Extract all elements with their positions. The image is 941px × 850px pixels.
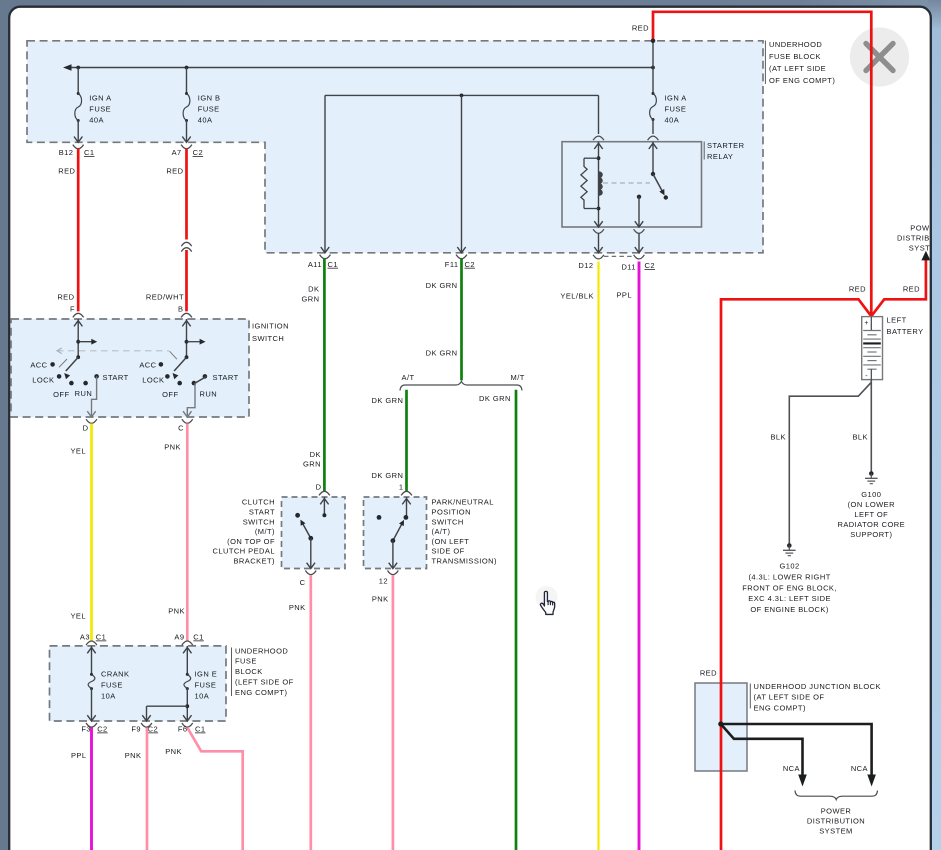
svg-text:PPL: PPL [616,291,632,300]
svg-text:EXC 4.3L: LEFT SIDE: EXC 4.3L: LEFT SIDE [748,594,831,603]
svg-text:FUSE: FUSE [101,681,123,690]
svg-text:RED/WHT: RED/WHT [146,293,184,302]
svg-text:(A/T): (A/T) [432,527,451,536]
svg-text:STARTER: STARTER [707,141,745,150]
svg-text:YEL: YEL [70,611,86,620]
svg-text:RED: RED [849,284,866,293]
svg-text:NCA: NCA [851,764,868,773]
svg-text:C1: C1 [193,633,204,642]
svg-text:(ON LEFT: (ON LEFT [432,537,470,546]
svg-text:POSITION: POSITION [432,508,471,517]
svg-text:12: 12 [379,576,388,585]
svg-text:RED: RED [632,23,649,32]
svg-text:GRN: GRN [303,460,321,469]
svg-text:(AT LEFT SIDE: (AT LEFT SIDE [769,64,826,73]
svg-text:SWITCH: SWITCH [252,334,284,343]
svg-text:SUPPORT): SUPPORT) [850,530,892,539]
svg-text:DK: DK [308,285,319,294]
svg-text:PNK: PNK [168,606,185,615]
svg-text:C1: C1 [84,148,95,157]
svg-text:C1: C1 [195,725,206,734]
svg-text:OF ENG COMPT): OF ENG COMPT) [769,76,835,85]
svg-text:ACC: ACC [30,361,47,370]
svg-text:CRANK: CRANK [101,669,130,678]
svg-text:G100: G100 [861,490,881,499]
svg-text:LEFT: LEFT [887,316,907,325]
svg-text:A9: A9 [174,633,184,642]
svg-text:IGN E: IGN E [195,669,218,678]
svg-text:10A: 10A [195,692,210,701]
svg-text:F6: F6 [178,725,188,734]
svg-text:C1: C1 [96,633,107,642]
svg-text:SYSTEM: SYSTEM [819,826,853,835]
svg-text:RED: RED [903,284,920,293]
svg-text:PARK/NEUTRAL: PARK/NEUTRAL [432,498,494,507]
svg-text:DK GRN: DK GRN [426,348,458,357]
svg-text:LOCK: LOCK [32,375,54,384]
svg-text:(ON TOP OF: (ON TOP OF [227,537,275,546]
svg-text:B12: B12 [59,148,74,157]
svg-text:RUN: RUN [75,389,93,398]
svg-text:1: 1 [399,482,404,491]
svg-text:10A: 10A [101,692,116,701]
svg-text:DK GRN: DK GRN [479,394,511,403]
svg-text:RELAY: RELAY [707,152,733,161]
svg-text:RUN: RUN [200,389,218,398]
svg-text:40A: 40A [665,116,680,125]
svg-text:BLOCK: BLOCK [235,667,263,676]
svg-text:C: C [300,578,306,587]
svg-text:UNDERHOOD: UNDERHOOD [235,646,288,655]
svg-text:(ON LOWER: (ON LOWER [848,500,896,509]
svg-text:CLUTCH: CLUTCH [242,498,275,507]
svg-text:G102: G102 [780,562,800,571]
svg-text:IGN A: IGN A [89,93,111,102]
svg-text:DK: DK [310,450,321,459]
svg-text:F9: F9 [131,725,141,734]
svg-text:LEFT OF: LEFT OF [854,510,888,519]
svg-text:TRANSMISSION): TRANSMISSION) [432,557,497,566]
svg-text:UNDERHOOD: UNDERHOOD [769,40,822,49]
svg-text:FUSE: FUSE [195,681,217,690]
svg-text:B: B [178,304,183,313]
svg-text:C2: C2 [193,148,204,157]
svg-text:LOCK: LOCK [142,375,164,384]
svg-text:C1: C1 [328,260,339,269]
svg-text:(M/T): (M/T) [255,527,275,536]
svg-text:40A: 40A [198,116,213,125]
svg-text:C2: C2 [465,260,476,269]
svg-text:DK GRN: DK GRN [426,281,458,290]
svg-text:FUSE BLOCK: FUSE BLOCK [769,52,821,61]
svg-text:C2: C2 [148,725,159,734]
svg-text:BATTERY: BATTERY [887,327,924,336]
svg-text:C2: C2 [97,725,108,734]
svg-text:D11: D11 [621,262,636,271]
svg-text:DK GRN: DK GRN [372,471,404,480]
svg-text:C: C [178,423,184,432]
svg-text:IGN B: IGN B [198,93,221,102]
svg-text:(LEFT SIDE OF: (LEFT SIDE OF [235,678,294,687]
svg-text:RED: RED [700,668,717,677]
svg-text:C2: C2 [645,261,656,270]
svg-text:START: START [213,373,239,382]
svg-text:POWER: POWER [821,806,852,815]
svg-text:PNK: PNK [165,747,182,756]
svg-text:OFF: OFF [162,390,178,399]
svg-text:FUSE: FUSE [235,657,257,666]
svg-text:PNK: PNK [289,603,306,612]
svg-text:40A: 40A [89,116,104,125]
svg-text:A11: A11 [308,260,322,269]
svg-text:F11: F11 [445,260,459,269]
svg-text:OFF: OFF [53,390,69,399]
svg-text:+: + [864,320,869,327]
svg-text:D: D [316,482,322,491]
svg-text:BRACKET): BRACKET) [233,557,275,566]
svg-text:PPL: PPL [71,751,87,760]
svg-text:PNK: PNK [125,751,142,760]
svg-text:NCA: NCA [783,764,800,773]
svg-text:START: START [249,508,275,517]
svg-text:(4.3L: LOWER RIGHT: (4.3L: LOWER RIGHT [748,572,830,581]
svg-text:FUSE: FUSE [198,105,220,114]
svg-text:D12: D12 [578,261,593,270]
svg-text:YEL: YEL [70,446,86,455]
svg-text:FUSE: FUSE [89,105,111,114]
svg-text:PNK: PNK [372,595,389,604]
svg-text:YEL/BLK: YEL/BLK [560,292,594,301]
svg-text:RADIATOR CORE: RADIATOR CORE [837,520,905,529]
svg-text:RED: RED [58,167,75,176]
svg-text:A7: A7 [172,148,182,157]
svg-text:-: - [865,373,868,380]
svg-text:BLK: BLK [852,432,868,441]
svg-text:FUSE: FUSE [665,105,687,114]
svg-text:ENG COMPT): ENG COMPT) [235,688,287,697]
svg-text:(AT LEFT SIDE OF: (AT LEFT SIDE OF [754,693,825,702]
svg-text:SIDE OF: SIDE OF [432,547,465,556]
svg-text:IGN A: IGN A [665,93,687,102]
svg-text:GRN: GRN [301,295,319,304]
svg-text:A/T: A/T [402,373,415,382]
svg-text:OF ENGINE BLOCK): OF ENGINE BLOCK) [750,605,829,614]
svg-text:RED: RED [57,293,74,302]
svg-text:FRONT OF ENG BLOCK,: FRONT OF ENG BLOCK, [742,583,837,592]
svg-text:DK GRN: DK GRN [372,396,404,405]
svg-text:F: F [70,304,75,313]
svg-text:D: D [83,423,89,432]
svg-text:CLUTCH PEDAL: CLUTCH PEDAL [213,547,276,556]
svg-text:SWITCH: SWITCH [243,517,275,526]
svg-text:A3: A3 [80,633,90,642]
svg-text:ENG COMPT): ENG COMPT) [754,704,806,713]
svg-text:BLK: BLK [770,432,786,441]
svg-text:UNDERHOOD JUNCTION BLOCK: UNDERHOOD JUNCTION BLOCK [754,682,881,691]
svg-text:ACC: ACC [139,361,156,370]
svg-text:IGNITION: IGNITION [252,322,289,331]
svg-text:F3: F3 [81,725,91,734]
svg-text:M/T: M/T [511,373,525,382]
svg-text:PNK: PNK [164,442,181,451]
svg-text:RED: RED [166,167,183,176]
svg-text:START: START [103,373,129,382]
svg-text:SWITCH: SWITCH [432,517,464,526]
svg-text:DISTRIBUTION: DISTRIBUTION [807,816,865,825]
